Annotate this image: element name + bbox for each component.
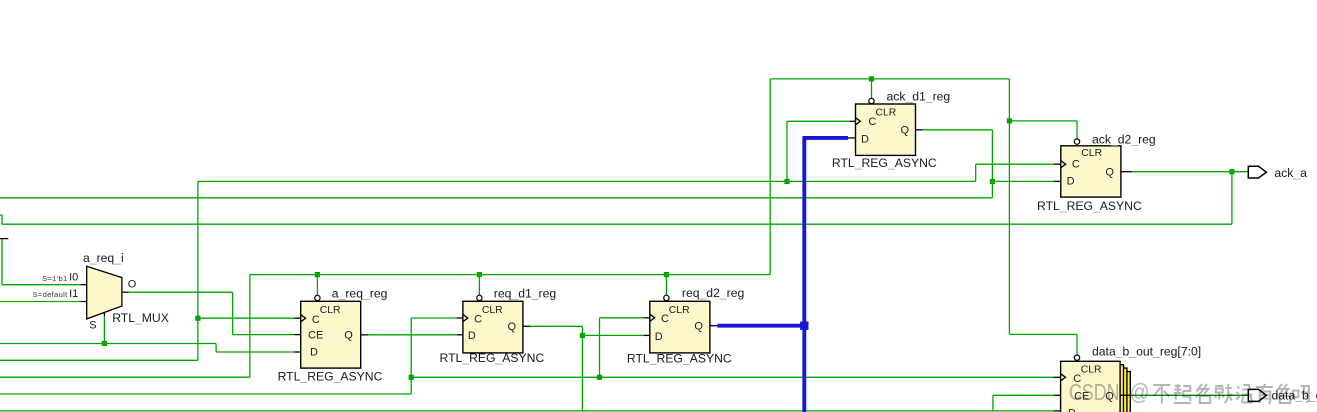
pin stub req_d2_reg C with clock chevron bbox=[644, 314, 655, 321]
svg-text:D: D bbox=[655, 331, 663, 343]
junction ack_a bbox=[1229, 169, 1234, 174]
wire clr exit left y377 bbox=[0, 376, 250, 378]
wire net_clk_top y79 bbox=[770, 78, 1009, 80]
pin label ack_d1 D bbox=[861, 133, 869, 145]
watermark glyph ming1 bbox=[1196, 384, 1211, 403]
svg-text:RTL_REG_ASYNC: RTL_REG_ASYNC bbox=[278, 370, 383, 384]
wire clr right riser x1009 bbox=[1008, 79, 1010, 335]
mux a_req_i bbox=[87, 266, 122, 319]
svg-text:O: O bbox=[128, 279, 137, 291]
svg-text:D: D bbox=[1068, 408, 1076, 412]
svg-text:CE: CE bbox=[308, 330, 323, 342]
value label S=default bbox=[33, 290, 69, 299]
wire clr branch data_b y334 bbox=[1009, 334, 1077, 355]
svg-text:D: D bbox=[861, 133, 869, 145]
pin label mux I1 bbox=[69, 288, 78, 300]
wire clr branch ack_d2 y121 bbox=[1009, 121, 1077, 139]
pin stub data_b_out_reg CE bbox=[1054, 394, 1061, 396]
svg-text:@: @ bbox=[1130, 379, 1150, 405]
wire ack_a feedback riser bbox=[1231, 172, 1233, 225]
svg-text:S: S bbox=[89, 319, 96, 331]
svg-text:C: C bbox=[312, 314, 320, 326]
wire clk line y377 bbox=[411, 376, 1053, 378]
wire bottom net y411 bbox=[0, 410, 1054, 412]
port data_b_out bbox=[1248, 389, 1266, 401]
pin label req_d2 Q bbox=[694, 321, 703, 333]
wire clk entry y394 bbox=[0, 393, 411, 395]
pin stub a_req_reg D bbox=[294, 351, 300, 353]
node label a_req_i bbox=[83, 251, 124, 265]
svg-text:a_req_reg: a_req_reg bbox=[332, 286, 388, 300]
svg-text:data_b_out_reg[7:0]: data_b_out_reg[7:0] bbox=[1092, 345, 1201, 359]
watermark glyph you bbox=[1256, 384, 1273, 403]
wire ack_d1 C branch x787 bbox=[787, 121, 850, 181]
port label ack_a bbox=[1274, 166, 1307, 180]
svg-text:I1: I1 bbox=[69, 288, 78, 300]
watermark glyph qi bbox=[1174, 384, 1191, 403]
watermark glyph mei bbox=[1236, 385, 1253, 403]
svg-text:D: D bbox=[310, 347, 318, 359]
svg-text:Q: Q bbox=[901, 125, 910, 137]
register data_b_out_reg stack layer 2 bbox=[1067, 368, 1127, 412]
svg-text:CLR: CLR bbox=[320, 305, 341, 316]
pin bubble req_d1_reg CLR bbox=[477, 295, 482, 300]
wire a_req D net y343 bbox=[0, 344, 294, 353]
junction clr req_d1 bbox=[477, 272, 482, 277]
svg-text:Q: Q bbox=[508, 321, 517, 333]
pin stub ack_d2_reg Q bbox=[1121, 171, 1132, 173]
wire req_d2 C branch bbox=[600, 318, 644, 378]
wire ack_a feedback y224 bbox=[2, 223, 1232, 225]
pin label a_req Q bbox=[344, 329, 353, 341]
pin stub ack_d2_reg D bbox=[1054, 180, 1061, 182]
pin label ack_d2 Q bbox=[1105, 166, 1114, 178]
svg-text:CLR: CLR bbox=[876, 107, 897, 118]
wire a_req Q to req_d1 D bbox=[368, 334, 457, 336]
junction clr req_d2 bbox=[664, 272, 669, 277]
wire blue to ack_d1 D bbox=[803, 136, 849, 140]
pin label data_b CLR bbox=[1081, 364, 1102, 375]
pin stub data_b_out_reg D bbox=[1054, 410, 1061, 412]
svg-text:req_d2_reg: req_d2_reg bbox=[682, 286, 744, 300]
pin label mux S bbox=[89, 319, 96, 331]
pin stub mux I1 bbox=[81, 301, 87, 303]
value label RTL_MUX bbox=[112, 311, 169, 325]
svg-text:ack_d1_reg: ack_d1_reg bbox=[887, 89, 951, 103]
wire ack_d1 Q to ack_d2 D bbox=[992, 180, 1053, 182]
pin label ack_d1 C bbox=[868, 116, 876, 128]
value label RTL_REG_ASYNC ack_d2 bbox=[1037, 199, 1142, 213]
pin label a_req C bbox=[312, 314, 320, 326]
pin stub ack_d2_reg C with clock chevron bbox=[1054, 161, 1066, 168]
pin label req_d2 CLR bbox=[669, 305, 690, 316]
value label RTL_REG_ASYNC req_d1 bbox=[440, 351, 545, 365]
pin label ack_d1 Q bbox=[901, 125, 910, 137]
node label req_d1_reg bbox=[494, 286, 556, 300]
pin stub a_req_reg C with clock chevron bbox=[294, 315, 305, 322]
svg-text:ack_d2_reg: ack_d2_reg bbox=[1092, 133, 1156, 147]
pin bubble data_b_out_reg CLR bbox=[1074, 355, 1079, 360]
pin label req_d1 D bbox=[468, 330, 476, 342]
svg-text:Q: Q bbox=[344, 329, 353, 341]
wire clr riser x770 bbox=[769, 79, 771, 275]
register data_b_out_reg stack layer 3 bbox=[1071, 372, 1131, 412]
wire data_b Q to port bbox=[1131, 394, 1248, 396]
pin label data_b Q bbox=[1105, 391, 1114, 403]
junction clk req_d1 bbox=[409, 375, 414, 380]
wire mux I1 net bbox=[0, 301, 81, 303]
register ack_d2_reg bbox=[1061, 146, 1121, 197]
wire ack_d2 Q to port bbox=[1132, 171, 1249, 173]
svg-text:RTL_MUX: RTL_MUX bbox=[112, 311, 169, 325]
node label req_d2_reg bbox=[682, 286, 744, 300]
value label S=1'b1 bbox=[42, 274, 67, 283]
node label ack_d1_reg bbox=[887, 89, 951, 103]
pin label req_d2 D bbox=[655, 331, 663, 343]
wire ack_d1 Q out bbox=[923, 130, 993, 198]
junction clr top bbox=[869, 76, 874, 81]
svg-text:I0: I0 bbox=[69, 271, 78, 283]
svg-text:RTL_REG_ASYNC: RTL_REG_ASYNC bbox=[440, 351, 545, 365]
node label data_b_out_reg[7:0] bbox=[1092, 345, 1201, 359]
watermark glyph jiu bbox=[1215, 384, 1232, 403]
wire left edge jog y215 bbox=[0, 215, 2, 224]
pin label mux O bbox=[128, 279, 137, 291]
wire clr left branch x250 bbox=[249, 275, 251, 378]
pin stub req_d2_reg Q bbox=[710, 325, 718, 327]
pin stub req_d2_reg D bbox=[644, 334, 650, 336]
svg-text:CLR: CLR bbox=[482, 305, 503, 316]
svg-text:CLR: CLR bbox=[669, 305, 690, 316]
junction a_req C bbox=[195, 316, 200, 321]
watermark CSDN bbox=[1069, 379, 1120, 405]
watermark glyph ming2 bbox=[1276, 384, 1291, 403]
svg-text:RTL_REG_ASYNC: RTL_REG_ASYNC bbox=[1037, 199, 1142, 213]
wire clk net A exit left y360 bbox=[0, 359, 198, 361]
junction clr a_req bbox=[315, 272, 320, 277]
svg-text:S=default: S=default bbox=[33, 290, 69, 299]
pin stub req_d1_reg D bbox=[457, 334, 463, 336]
svg-text:CLR: CLR bbox=[1081, 148, 1102, 159]
pin label ack_d2 C bbox=[1072, 159, 1080, 171]
svg-text:D: D bbox=[1067, 176, 1075, 188]
register data_b_out_reg bbox=[1061, 361, 1121, 412]
value label RTL_REG_ASYNC a_req bbox=[278, 370, 383, 384]
wire mux O to a_req CE bbox=[129, 292, 295, 334]
port label data_b_out bbox=[1272, 389, 1317, 403]
svg-text:Q: Q bbox=[694, 321, 703, 333]
wire blue req_d2 Q bbox=[717, 324, 804, 328]
pin label mux I0 bbox=[69, 271, 78, 283]
junction blue bbox=[800, 322, 808, 330]
svg-text:S=1'b1: S=1'b1 bbox=[42, 274, 67, 283]
pin label a_req CLR bbox=[320, 305, 341, 316]
pin label data_b D bbox=[1068, 408, 1076, 412]
wire net B y198 bbox=[0, 197, 992, 199]
svg-text:ack_a: ack_a bbox=[1274, 166, 1307, 180]
pin label req_d1 CLR bbox=[482, 305, 503, 316]
svg-text:CLR: CLR bbox=[1081, 364, 1102, 375]
pin stub mux O bbox=[122, 291, 129, 293]
svg-text:C: C bbox=[1072, 159, 1080, 171]
wire req_d1 Q to req_d2 D bbox=[582, 334, 643, 336]
pin stub ack_d1_reg Q bbox=[916, 129, 923, 131]
wire clr trunk y274 bbox=[250, 274, 770, 276]
node label a_req_reg bbox=[332, 286, 388, 300]
value label RTL_REG_ASYNC ack_d1 bbox=[832, 156, 937, 170]
wire blue selected net vertical bbox=[802, 138, 806, 412]
register req_d1_reg bbox=[463, 301, 523, 353]
port ack_a bbox=[1248, 166, 1266, 178]
pin stub data_b_out_reg C with clock chevron bbox=[1054, 374, 1066, 381]
pin label ack_d2 D bbox=[1067, 176, 1075, 188]
wire mux S net bbox=[103, 316, 105, 344]
register a_req_reg bbox=[301, 301, 361, 368]
wire req_d1 Q out bbox=[530, 326, 582, 411]
junction ack_d1 Q bbox=[990, 179, 995, 184]
pin stub mux S bbox=[103, 313, 105, 317]
pin stub req_d1_reg C with clock chevron bbox=[457, 314, 468, 321]
pin bubble ack_d1_reg CLR bbox=[869, 98, 874, 103]
register data_b_out_reg stack layer 1 bbox=[1064, 365, 1124, 412]
watermark at-sign bbox=[1130, 379, 1150, 405]
wire clr stub a_req_reg bubble bbox=[316, 275, 318, 295]
wire data_b CE riser bbox=[993, 395, 1054, 411]
svg-text:C: C bbox=[474, 313, 482, 325]
wire clr stub ack_d1 bubble bbox=[871, 79, 873, 99]
junction ack_d1 C bbox=[784, 179, 789, 184]
pin stub req_d1_reg Q bbox=[523, 325, 530, 327]
junction req_d1 Q bbox=[580, 333, 585, 338]
junction mux S bbox=[102, 341, 107, 346]
pin bubble a_req_reg CLR bbox=[315, 295, 320, 300]
wire clr stub req_d1_reg bubble bbox=[478, 275, 480, 295]
pin stub data_b_out_reg Q bbox=[1120, 394, 1131, 396]
pin label req_d1 C bbox=[474, 313, 482, 325]
register req_d2_reg bbox=[650, 301, 710, 353]
pin label data_b CE bbox=[1074, 391, 1089, 403]
svg-text:C: C bbox=[661, 313, 669, 325]
watermark glyph bu bbox=[1153, 385, 1170, 404]
pin label a_req D bbox=[310, 347, 318, 359]
pin bubble ack_d2_reg CLR bbox=[1074, 139, 1079, 144]
svg-text:req_d1_reg: req_d1_reg bbox=[494, 286, 556, 300]
wire clr stub req_d2_reg bubble bbox=[665, 275, 667, 295]
svg-text:CSDN: CSDN bbox=[1069, 379, 1120, 405]
svg-text:D: D bbox=[468, 330, 476, 342]
svg-text:Q: Q bbox=[1105, 166, 1114, 178]
pin label req_d2 C bbox=[661, 313, 669, 325]
pin label ack_d1 CLR bbox=[876, 107, 897, 118]
value label RTL_REG_ASYNC req_d2 bbox=[627, 352, 732, 366]
pin stub ack_d1_reg C with clock chevron bbox=[850, 118, 861, 125]
watermark glyph ma bbox=[1293, 386, 1309, 402]
register ack_d1_reg bbox=[856, 104, 916, 155]
pin stub ack_d1_reg D bbox=[848, 137, 856, 139]
pin stub a_req_reg CE bbox=[294, 334, 300, 336]
node label ack_d2_reg bbox=[1092, 133, 1156, 147]
pin bubble req_d2_reg CLR bbox=[664, 295, 669, 300]
junction clr ack_d2 bbox=[1007, 118, 1012, 123]
svg-text:RTL_REG_ASYNC: RTL_REG_ASYNC bbox=[627, 352, 732, 366]
pin label data_b C bbox=[1073, 373, 1081, 385]
wire mux I0 net bbox=[2, 239, 81, 285]
pin stub a_req_reg Q bbox=[361, 334, 369, 336]
wire clk net A y181 bbox=[198, 180, 976, 182]
svg-text:RTL_REG_ASYNC: RTL_REG_ASYNC bbox=[832, 156, 937, 170]
pin label ack_d2 CLR bbox=[1081, 148, 1102, 159]
node left black tick bbox=[0, 238, 8, 240]
wire a_req C branch bbox=[198, 317, 295, 319]
svg-text:a_req_i: a_req_i bbox=[83, 251, 124, 265]
pin label req_d1 Q bbox=[508, 321, 517, 333]
pin stub mux I0 bbox=[81, 284, 87, 286]
pin label a_req CE bbox=[308, 330, 323, 342]
wire clk net A riser x198 bbox=[197, 181, 199, 360]
wire clk net A to ack_d2 C bbox=[976, 164, 1054, 181]
wire req_d1 C branch bbox=[411, 318, 457, 394]
junction clk req_d2 bbox=[597, 375, 602, 380]
